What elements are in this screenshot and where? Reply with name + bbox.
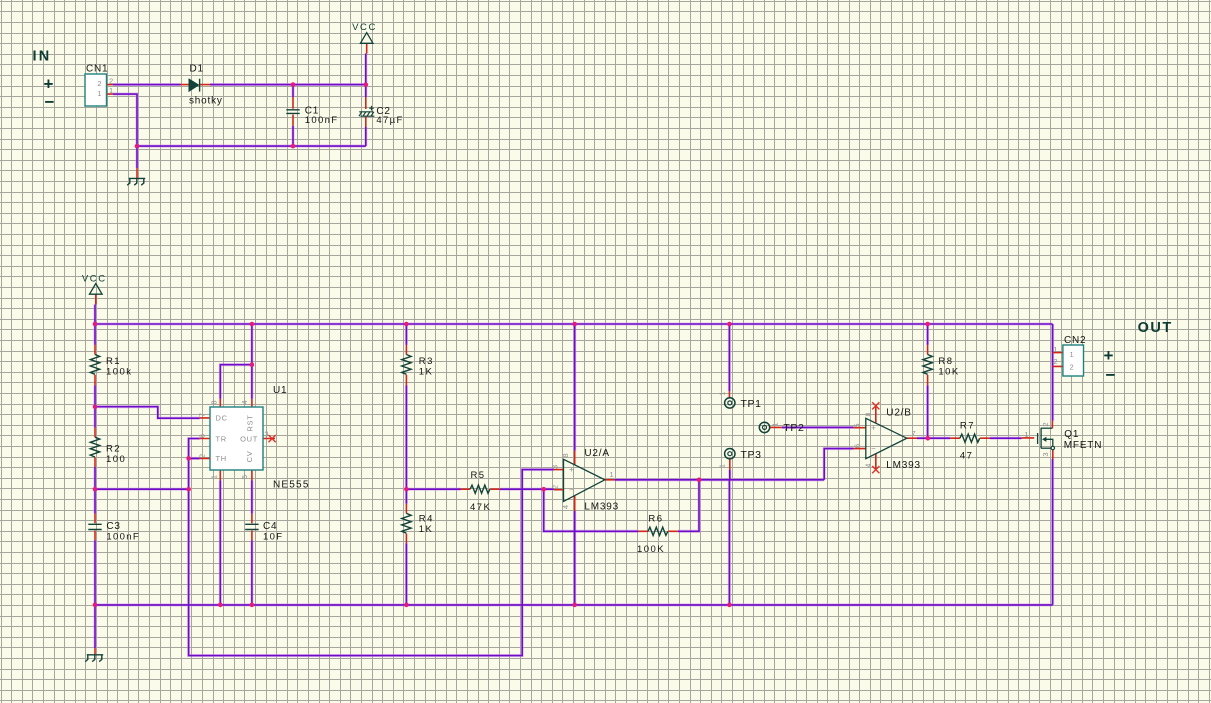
- svg-text:+: +: [569, 465, 574, 474]
- svg-text:shotky: shotky: [189, 96, 223, 107]
- svg-text:OUT: OUT: [1138, 320, 1173, 336]
- svg-text:R6: R6: [648, 514, 663, 525]
- svg-text:47K: 47K: [470, 502, 491, 513]
- svg-text:+: +: [44, 75, 54, 94]
- svg-text:CV: CV: [245, 451, 254, 463]
- svg-text:VCC: VCC: [352, 22, 377, 33]
- svg-text:10K: 10K: [938, 367, 959, 378]
- svg-text:R5: R5: [471, 470, 486, 481]
- svg-text:100nF: 100nF: [106, 532, 140, 543]
- svg-text:Q1: Q1: [1064, 429, 1079, 440]
- svg-text:LM393: LM393: [886, 460, 921, 471]
- svg-text:2: 2: [109, 77, 113, 86]
- svg-text:3: 3: [1041, 452, 1050, 456]
- svg-text:100K: 100K: [637, 544, 665, 555]
- svg-text:1: 1: [97, 89, 101, 98]
- svg-text:2: 2: [1053, 357, 1057, 366]
- svg-text:C4: C4: [263, 521, 277, 532]
- svg-text:6: 6: [853, 444, 862, 448]
- svg-text:100k: 100k: [106, 367, 132, 378]
- svg-text:1: 1: [720, 464, 727, 468]
- svg-text:RST: RST: [245, 414, 254, 431]
- svg-text:U2/A: U2/A: [584, 448, 609, 459]
- svg-text:47: 47: [960, 451, 973, 462]
- svg-text:TH: TH: [216, 454, 227, 463]
- svg-text:10F: 10F: [263, 532, 283, 543]
- svg-text:1: 1: [720, 391, 727, 395]
- svg-text:5: 5: [853, 423, 862, 427]
- svg-text:NE555: NE555: [273, 480, 310, 491]
- svg-text:TP2: TP2: [783, 422, 804, 434]
- svg-text:8: 8: [866, 412, 873, 416]
- svg-text:1: 1: [1024, 430, 1028, 439]
- svg-text:1: 1: [773, 422, 780, 426]
- svg-text:4: 4: [866, 463, 873, 467]
- svg-text:7: 7: [198, 413, 207, 417]
- svg-text:4: 4: [561, 505, 570, 509]
- svg-text:VCC: VCC: [82, 274, 107, 285]
- svg-text:C3: C3: [106, 521, 120, 532]
- svg-text:MFETN: MFETN: [1064, 440, 1102, 451]
- svg-text:−: −: [45, 93, 55, 112]
- svg-text:100: 100: [106, 454, 126, 465]
- svg-text:7: 7: [912, 429, 916, 438]
- svg-text:2: 2: [1070, 362, 1074, 371]
- svg-text:DC: DC: [216, 413, 228, 422]
- svg-text:TP3: TP3: [741, 449, 762, 461]
- svg-text:−: −: [871, 444, 876, 453]
- svg-text:2: 2: [198, 454, 207, 458]
- svg-text:3: 3: [264, 430, 268, 439]
- svg-text:+: +: [871, 424, 876, 433]
- svg-text:2: 2: [551, 485, 560, 489]
- svg-text:1K: 1K: [419, 367, 434, 378]
- svg-text:U2/B: U2/B: [886, 408, 911, 419]
- svg-text:3: 3: [551, 465, 560, 469]
- svg-text:5: 5: [240, 475, 249, 479]
- svg-text:R1: R1: [106, 356, 121, 367]
- svg-text:CN1: CN1: [86, 64, 108, 75]
- svg-text:LM393: LM393: [584, 502, 619, 513]
- svg-text:100nF: 100nF: [305, 115, 339, 126]
- svg-text:1K: 1K: [419, 524, 434, 535]
- svg-text:1: 1: [109, 86, 113, 95]
- svg-text:1: 1: [1053, 345, 1057, 354]
- svg-text:D1: D1: [190, 64, 204, 75]
- svg-text:R3: R3: [419, 356, 434, 367]
- svg-text:47µF: 47µF: [376, 115, 403, 126]
- svg-text:2: 2: [1041, 422, 1050, 426]
- svg-text:TP1: TP1: [741, 398, 762, 410]
- svg-text:IN: IN: [33, 49, 52, 65]
- svg-text:6: 6: [198, 434, 207, 438]
- svg-text:+: +: [1104, 346, 1114, 365]
- svg-text:1: 1: [1070, 350, 1074, 359]
- svg-text:8: 8: [561, 453, 570, 457]
- svg-text:OUT: OUT: [240, 434, 258, 443]
- svg-text:4: 4: [240, 400, 249, 404]
- svg-text:−: −: [1106, 366, 1116, 385]
- svg-text:TR: TR: [216, 434, 227, 443]
- svg-text:U1: U1: [273, 385, 287, 396]
- svg-text:1: 1: [210, 475, 219, 479]
- svg-text:R7: R7: [960, 421, 975, 432]
- svg-text:CN2: CN2: [1064, 335, 1086, 346]
- svg-text:1: 1: [610, 470, 614, 479]
- svg-text:2: 2: [97, 79, 101, 88]
- svg-text:8: 8: [210, 400, 219, 404]
- svg-text:R8: R8: [938, 356, 953, 367]
- svg-text:−: −: [569, 486, 574, 495]
